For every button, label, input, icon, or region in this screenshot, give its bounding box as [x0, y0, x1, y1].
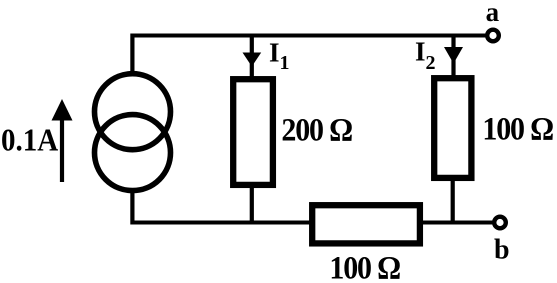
svg-text:0.1A: 0.1A: [1, 122, 58, 157]
svg-text:100 Ω: 100 Ω: [329, 249, 400, 283]
wire: left vertical from top wire to current source top: [130, 34, 134, 73]
resistor 100 ohm right (vertical box): [434, 78, 471, 178]
terminal b (open circle): [494, 217, 506, 229]
wire: current source bottom stub: [130, 191, 134, 225]
terminal a (open circle): [487, 30, 499, 42]
svg-text:200 Ω: 200 Ω: [281, 111, 352, 147]
svg-text:I1: I1: [269, 38, 290, 75]
wire: top horizontal from source to terminal a: [131, 34, 487, 38]
wire: bottom horizontal right segment to terminal b: [421, 221, 494, 225]
wire: stem from top wire to right 100 ohm resistor with I2 arrow: [444, 37, 463, 78]
current source I (two overlapping circles): [95, 74, 171, 191]
svg-text:b: b: [494, 235, 510, 266]
resistor 200 ohm (vertical box): [233, 79, 273, 185]
wire: bottom horizontal left segment: [131, 221, 312, 225]
wire: stem from top wire to 200 ohm resistor with I1 arrow: [243, 37, 262, 79]
0.1A source arrow (pointing up): [52, 99, 73, 182]
wire: right 100 ohm bottom stem: [451, 178, 455, 224]
svg-text:I2: I2: [415, 37, 436, 75]
wire: 200 ohm bottom stem: [250, 185, 254, 224]
svg-text:100 Ω: 100 Ω: [482, 110, 553, 146]
resistor 100 ohm bottom (horizontal box): [312, 205, 420, 243]
svg-text:a: a: [486, 0, 500, 27]
